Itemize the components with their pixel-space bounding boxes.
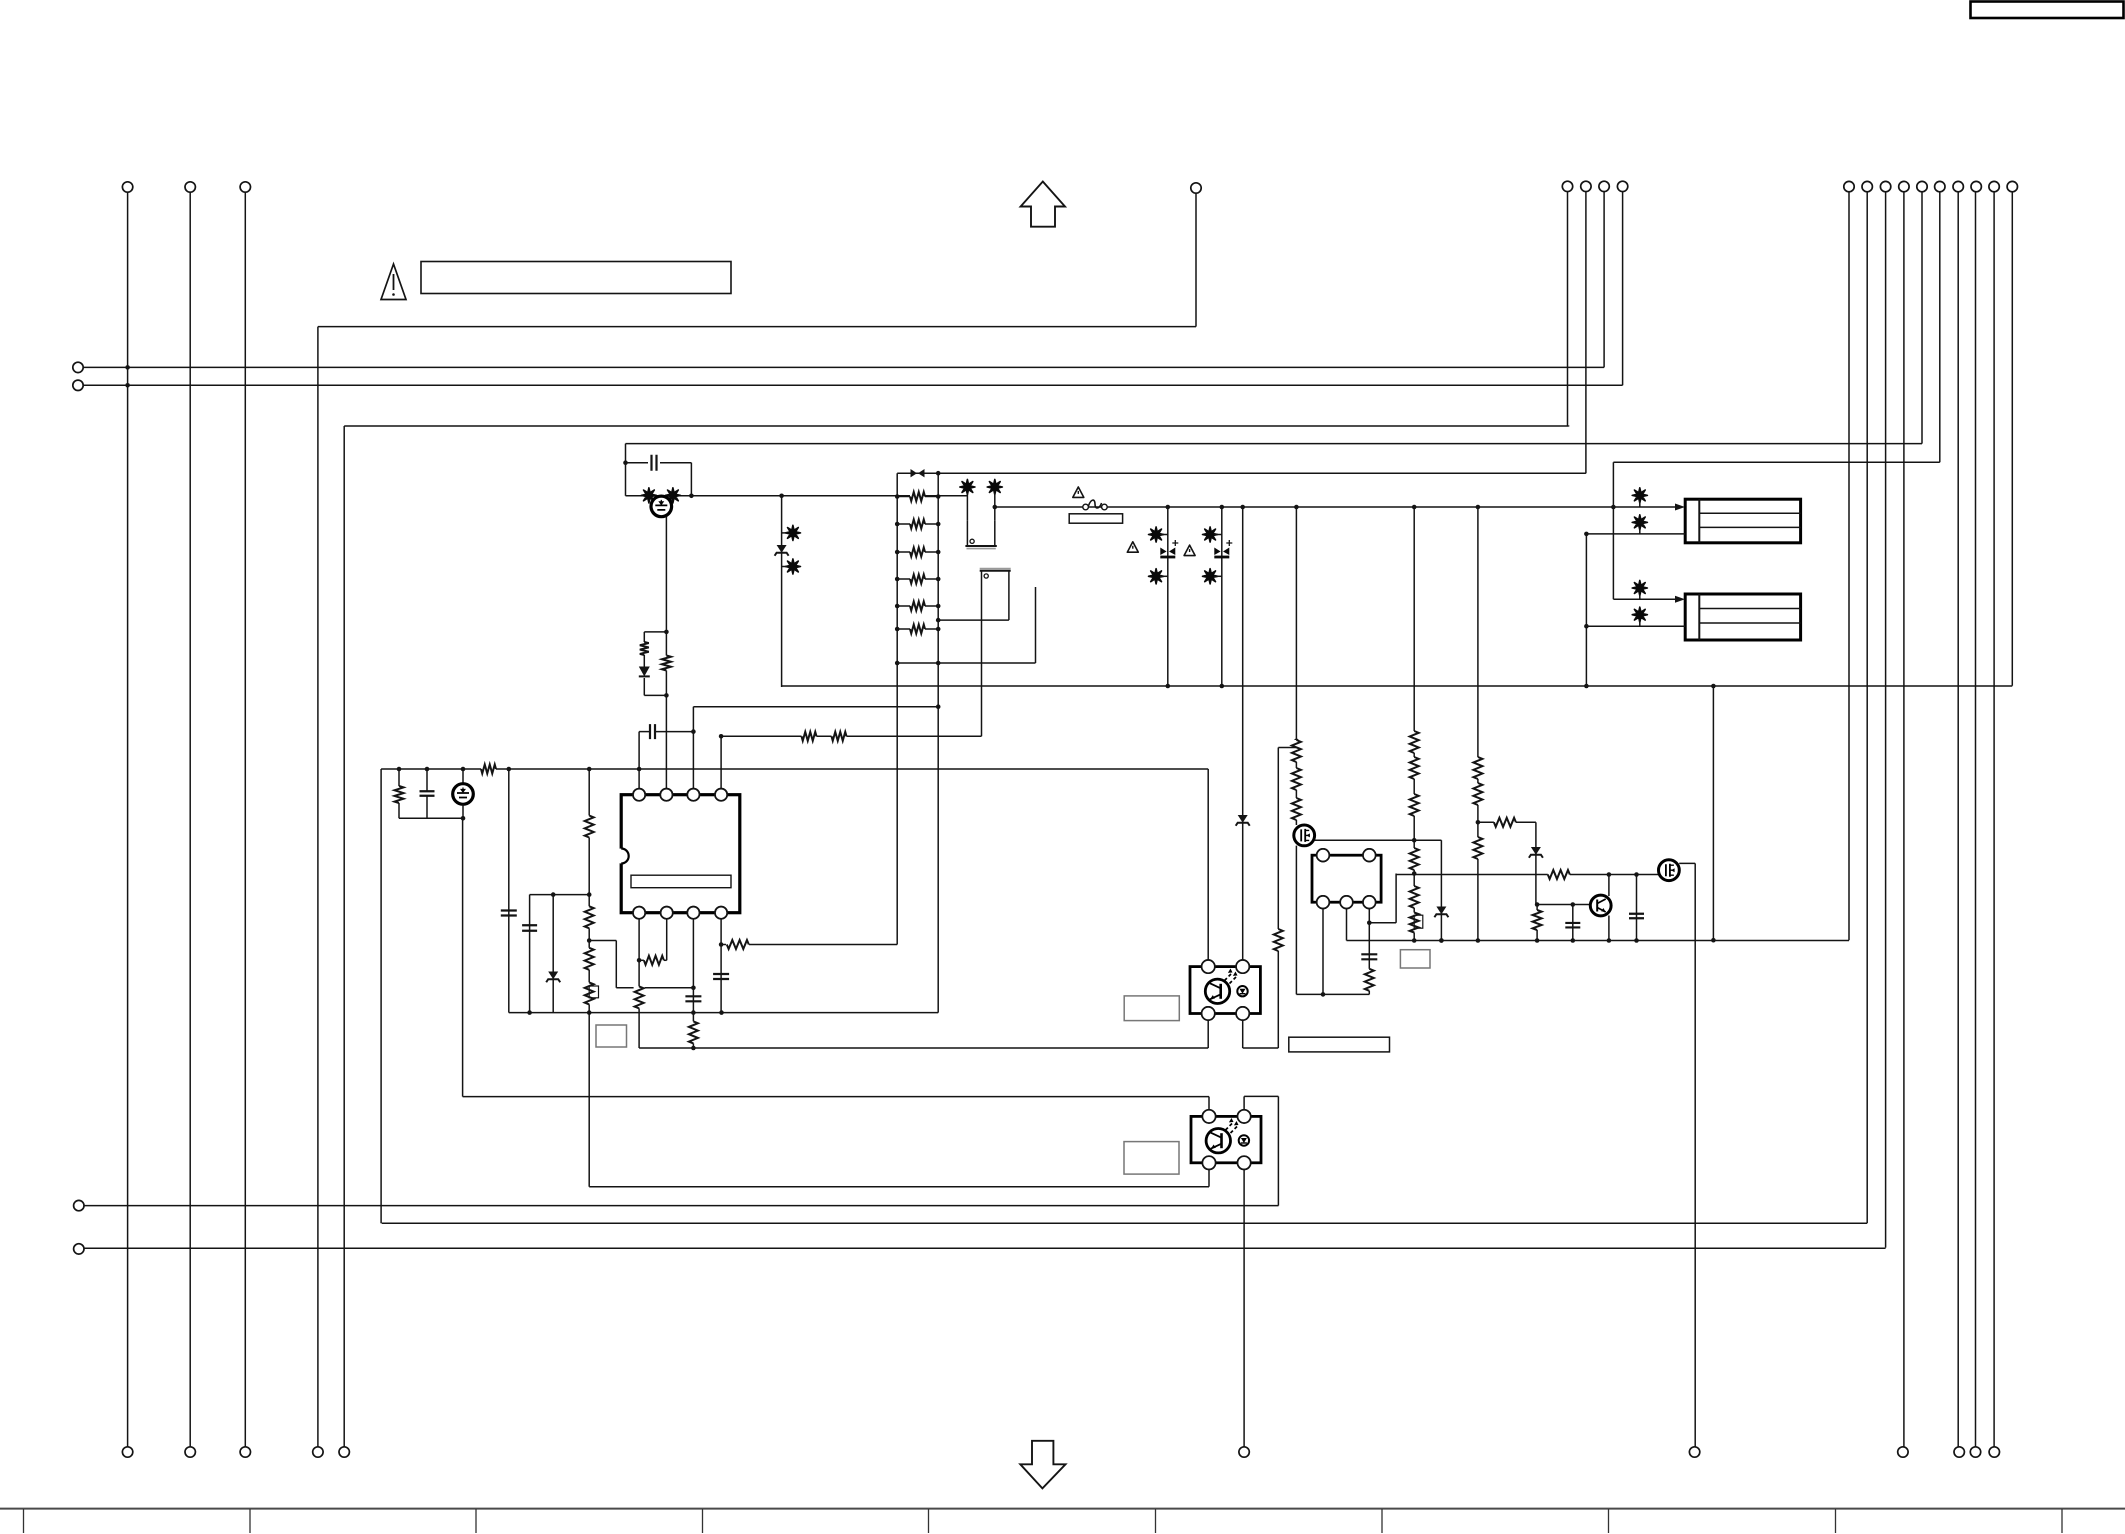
arrow into connector CN-B2 bbox=[1675, 596, 1685, 603]
wire FET1 source bbox=[1295, 846, 1297, 995]
wire vertical x=127.6 bbox=[125, 192, 130, 1447]
wire PC2 cathode bbox=[1243, 1163, 1245, 1447]
wire x=1441.4 + zener bbox=[1439, 840, 1444, 943]
transformer core stub bbox=[1035, 587, 1037, 663]
title box top-right bbox=[1971, 2, 2124, 19]
resistor R-e bbox=[584, 948, 595, 970]
connector block CN-B1 bbox=[1685, 499, 1800, 543]
sheet bottom border line bbox=[0, 1508, 2125, 1510]
wire y=818.3 bbox=[399, 816, 465, 821]
connector pin group3-4 bbox=[1899, 181, 1909, 191]
wire x=508.8 with cap bbox=[508, 769, 510, 1013]
connector pin bottom-left-5 bbox=[339, 1447, 349, 1457]
connector pin bottom-right-4 bbox=[1954, 1447, 1964, 1457]
zener ZD-b x=553.2 bbox=[546, 895, 560, 1013]
wire AC-N y=385.3 bbox=[83, 384, 1622, 386]
wire y=1096.6 bbox=[463, 1096, 1209, 1098]
capacitor C-e1 (polarized) bbox=[1160, 540, 1178, 557]
resistor R-k bbox=[688, 1021, 699, 1043]
star FR3 bbox=[782, 525, 801, 540]
IC U1 top pin 2 bbox=[660, 789, 672, 801]
wire vertical x=245.3 bbox=[244, 192, 246, 1447]
wire PC1 emitter bbox=[1207, 1014, 1209, 1049]
IC U1 bottom pin 6 bbox=[687, 907, 699, 919]
optocoupler PC2 LED bbox=[1239, 1135, 1249, 1145]
resistor R-h bbox=[832, 731, 847, 742]
resistor R-f boxed bbox=[584, 982, 599, 1004]
wire y=443.6 bbox=[626, 443, 1923, 445]
wire vertical x=1867.3 bbox=[1866, 192, 1868, 1223]
wire U1 pin7 path bbox=[589, 941, 696, 991]
zener ZD-c bbox=[1236, 815, 1250, 826]
wire vertical x=1903.9 bbox=[1903, 192, 1905, 1447]
chain x=1477.9 bbox=[1476, 505, 1481, 941]
IC U1 top pin 3 bbox=[687, 789, 699, 801]
wire AC-L y=367.4 bbox=[83, 366, 1604, 368]
wire x=381.1 left loop bbox=[380, 769, 382, 1223]
wire pin2 to IC bbox=[665, 695, 667, 794]
connector pin bottom-right-2 bbox=[1689, 1447, 1699, 1457]
star FR12 bbox=[1632, 515, 1647, 534]
resistor R-ladder-3 bbox=[897, 547, 938, 558]
wire y=473.2 (ladder top) bbox=[897, 471, 1586, 476]
connector pin group3-5 bbox=[1917, 181, 1927, 191]
connector pin group3-1 bbox=[1844, 181, 1854, 191]
wire vertical x=1975.5 bbox=[1975, 192, 1977, 1447]
wire U1 pin3 top bbox=[692, 707, 694, 795]
wire x=1713.4 bbox=[1711, 684, 1716, 943]
bus y=1012.6 bbox=[509, 1012, 938, 1014]
connector pin group3-9 bbox=[1989, 181, 1999, 191]
wire y=994.4 bbox=[1296, 993, 1369, 995]
wire y=462.2 bbox=[1613, 461, 1939, 463]
label box LB-D bbox=[1124, 1142, 1179, 1175]
resistor R-a (pin2 chain) bbox=[661, 632, 672, 696]
wire U1 pin5 bottom bbox=[719, 913, 724, 1015]
resistor R-ladder-6 bbox=[897, 624, 938, 635]
wire Q2 emitter bbox=[1608, 916, 1610, 941]
resistor R-o bbox=[1273, 929, 1284, 951]
capacitor C-g bbox=[685, 996, 701, 1001]
connector pin group3-2 bbox=[1862, 181, 1872, 191]
star FR14 bbox=[1632, 607, 1647, 626]
optocoupler PC1 LED bbox=[1237, 986, 1247, 996]
connector pin P1-3 (top left) bbox=[240, 182, 250, 192]
connector pin bottom-right-3 bbox=[1898, 1447, 1908, 1457]
cap bank riser x=1221.8 bbox=[1220, 505, 1225, 689]
optocoupler PC2 body bbox=[1191, 1116, 1261, 1162]
branch R+D parallel bbox=[639, 632, 667, 696]
label box LB-C bbox=[1400, 950, 1430, 968]
wire vertical x=1994.3 bbox=[1993, 192, 1995, 1447]
resistor R-j (pins 8-7) bbox=[639, 955, 667, 966]
wire U1 pin7 bottom bbox=[666, 913, 668, 961]
wire x=1586.4 riser bbox=[1584, 532, 1589, 689]
resistor R-u boxed bbox=[1409, 913, 1423, 933]
wire PC2 emitter bbox=[1208, 1163, 1210, 1187]
star FR10 bbox=[1203, 569, 1222, 584]
resistor R-d0 bbox=[584, 816, 595, 838]
transistor Q2 (NPN) bbox=[1590, 895, 1611, 916]
connector pin bottom-left-4 bbox=[313, 1447, 323, 1457]
ladder right vertical x=938.2 bbox=[936, 473, 941, 1012]
resistor R-q0 bbox=[1409, 731, 1420, 753]
star FR9 bbox=[1203, 527, 1222, 542]
resistor R-b on y=769 bbox=[481, 764, 496, 775]
wire y=894.6 bbox=[530, 892, 592, 897]
connector pin left-4 bbox=[74, 1244, 84, 1254]
IC U2 pins bbox=[1317, 849, 1376, 909]
warning note box bbox=[421, 262, 731, 294]
wire riser-A x=1278.3 bbox=[1278, 748, 1296, 1049]
resistor R-g bbox=[802, 731, 817, 742]
wire PC2 collector bbox=[1208, 1097, 1210, 1117]
optocoupler PC1 body bbox=[1190, 967, 1260, 1014]
wire into CN-B2 top bbox=[1613, 598, 1676, 600]
fuse warning triangle bbox=[1073, 487, 1084, 497]
capacitor C-b x=427 bbox=[420, 769, 435, 818]
wire vertical x=1622.6 bbox=[1622, 192, 1624, 386]
warning triangle near C-e2 bbox=[1184, 545, 1195, 555]
capacitor C-d x=529.6 bbox=[527, 895, 532, 1015]
resistor R-p bbox=[1364, 969, 1375, 991]
wire y=1186.7 bbox=[589, 1186, 1209, 1188]
bus y=686 bbox=[782, 685, 2013, 687]
wire Q3 drain bbox=[1679, 863, 1695, 1446]
resistor R-s bbox=[1409, 848, 1420, 870]
wire vertical x=1567.5 bbox=[1567, 192, 1569, 426]
IC U1 top pin 1 bbox=[633, 789, 645, 801]
label box LB-wide bbox=[1289, 1037, 1390, 1052]
resistor R-x bbox=[1494, 817, 1516, 828]
chain x=1414.2 bbox=[1412, 505, 1417, 941]
connector block CN-B2 bbox=[1685, 594, 1800, 640]
star FR6 bbox=[987, 479, 1002, 520]
wire PC2 anode path bbox=[1244, 1096, 1278, 1116]
wire snubber left vertical x=625.5 bbox=[623, 444, 628, 496]
wire vertical x=1921.1 bbox=[1921, 192, 1923, 444]
optocoupler PC2 pins bbox=[1202, 1110, 1250, 1170]
wire Q2 base bbox=[1535, 902, 1591, 907]
wire vertical x=1885.4 bbox=[1885, 192, 1887, 1248]
resistor R-r bbox=[1409, 794, 1420, 816]
connector pin left-1 bbox=[73, 362, 83, 372]
wire PC1 cathode bbox=[1243, 1014, 1279, 1049]
protective earth symbol E1 bbox=[651, 496, 672, 517]
resistor R-d bbox=[584, 906, 595, 928]
capacitor C-c bbox=[501, 911, 517, 916]
capacitor C-i bbox=[1361, 954, 1377, 959]
connector pin bottom-right-6 bbox=[1989, 1447, 1999, 1457]
capacitor C-f (pins1-3) bbox=[639, 724, 696, 739]
arrow into connector CN-B1 bbox=[1675, 504, 1685, 511]
connector pin group3-3 bbox=[1880, 181, 1890, 191]
optocoupler PC2 light arrows bbox=[1226, 1118, 1239, 1133]
resistor R-ladder-4 bbox=[897, 574, 938, 585]
connector pin P1-2 (top left) bbox=[185, 182, 195, 192]
IC U1 body bbox=[614, 795, 740, 913]
label box LB-B bbox=[1124, 996, 1179, 1021]
wire y=822.3 bbox=[1478, 821, 1536, 823]
zener ZD-a bbox=[775, 545, 789, 556]
wire U1 pin3 y=706.7 bbox=[693, 706, 938, 708]
capacitor C-j bbox=[1565, 905, 1580, 941]
wire B3 tap bbox=[1369, 874, 1396, 923]
star FR11 bbox=[1632, 488, 1647, 507]
wire y=426 bbox=[344, 425, 1569, 428]
capacitor C-k bbox=[1629, 875, 1644, 941]
resistor R-v0 bbox=[1472, 757, 1483, 779]
wire vertical x=190.2 bbox=[189, 192, 191, 1447]
capacitor C-e2 (polarized) bbox=[1214, 540, 1232, 557]
wire PC1 anode riser bbox=[1240, 505, 1245, 967]
wire y=326.6 bbox=[318, 326, 1196, 328]
IC U2 body bbox=[1312, 855, 1381, 902]
wire vertical x=317.9 bbox=[317, 327, 319, 1447]
resistor R-q bbox=[1409, 757, 1420, 779]
wire x=1535.9 bbox=[1535, 822, 1537, 904]
capacitor C-d plates bbox=[522, 925, 537, 931]
optocoupler PC1 phototransistor bbox=[1205, 979, 1229, 1003]
optocoupler PC2 phototransistor bbox=[1206, 1129, 1230, 1153]
wire y=1048 (opto1 emitter) bbox=[639, 1047, 1208, 1049]
IC U1 label box bbox=[631, 875, 731, 888]
resistor R-m bbox=[1291, 768, 1302, 790]
wire x=589.2 sense bbox=[587, 769, 592, 1187]
pin overlays (redraw on top) bbox=[633, 789, 1376, 1170]
resistor R-w bbox=[1472, 837, 1483, 859]
transistor Q3 (FET) bbox=[1659, 860, 1680, 881]
zener ZD-d bbox=[1434, 907, 1448, 918]
wire y=736.3 (Vcc) bbox=[721, 735, 981, 737]
wire vertical x=1585.9 bbox=[1585, 192, 1587, 474]
optocoupler PC1 light arrows bbox=[1225, 969, 1238, 984]
wire y=507 (secondary rail) bbox=[995, 506, 1676, 508]
resistor R-n bbox=[1291, 798, 1302, 820]
fuse F1 bbox=[1083, 500, 1107, 510]
connector pin bottom-left-3 bbox=[240, 1447, 250, 1457]
connector pin bottom-left-2 bbox=[185, 1447, 195, 1457]
resistor R-c x=399 bbox=[394, 769, 405, 818]
connector pin P1-1 (top left) bbox=[122, 182, 132, 192]
winding W1 (primary shield) bbox=[965, 521, 996, 549]
wire vertical x=344.2 bbox=[343, 426, 345, 1447]
wire CN-B1 bottom bbox=[1586, 533, 1685, 535]
resistor R-t bbox=[1409, 886, 1420, 908]
wire FET1 drain chain bbox=[1294, 505, 1299, 825]
capacitor C-h bbox=[713, 974, 729, 979]
wire snubber right vertical bbox=[689, 463, 694, 498]
wire vertical x=1849.9 bbox=[1848, 192, 1850, 940]
wire U1 pin6 bottom bbox=[691, 913, 696, 1051]
wire y=1205.6 bbox=[84, 1205, 1279, 1207]
connector pin bottom-right-1 bbox=[1239, 1447, 1249, 1457]
wire vertical x=1939.7 bbox=[1939, 192, 1941, 462]
wire y=1223.3 bbox=[382, 1222, 1868, 1224]
wire FET1 gate y=840.2 bbox=[1315, 838, 1442, 843]
wire y=874.5 bbox=[1396, 872, 1658, 877]
connector pin group2-2 bbox=[1581, 181, 1591, 191]
wire U2 pin B2 to bus bbox=[1346, 902, 1348, 940]
IC U1 bottom pin 5 bbox=[715, 907, 727, 919]
cap bank riser x=1167.8 bbox=[1166, 505, 1171, 689]
ladder left vertical x=897.2 bbox=[895, 473, 900, 944]
optocoupler PC1 pins bbox=[1202, 960, 1250, 1020]
connector pin group3-10 bbox=[2007, 181, 2017, 191]
star FR13 bbox=[1632, 580, 1647, 599]
warning triangle near C-e1 bbox=[1127, 542, 1138, 552]
wire zener branch x=781.6 bbox=[781, 496, 783, 687]
bus y=940.5 bbox=[1347, 938, 1850, 943]
warning triangle symbol bbox=[381, 264, 406, 300]
IC U1 top pin 4 bbox=[715, 789, 727, 801]
connector pin group3-8 bbox=[1971, 181, 1981, 191]
wire U2 pin B1 bbox=[1321, 902, 1326, 997]
star FR8 bbox=[1149, 569, 1168, 584]
resistor R-y bbox=[1532, 905, 1543, 941]
diode D-a bbox=[639, 667, 650, 677]
wire U1 pin4 top bbox=[719, 734, 724, 795]
wire U1 pin8 bottom bbox=[637, 913, 642, 1048]
wire vertical to top-middle pin bbox=[1195, 193, 1197, 326]
connector pin left-2 bbox=[73, 380, 83, 390]
connector pin (top middle) bbox=[1191, 183, 1201, 193]
star FR4 bbox=[782, 559, 801, 574]
protective earth symbol E2 bbox=[453, 769, 474, 818]
wire pin2 chain top bbox=[664, 517, 669, 698]
resistor R-ladder-2 bbox=[897, 519, 938, 530]
resistor R-ladder-1 bbox=[897, 491, 938, 502]
transistor Q1 (FET) bbox=[1294, 825, 1315, 846]
connector pin group3-6 bbox=[1935, 181, 1945, 191]
fusible-resistor star FR1 bbox=[641, 488, 656, 503]
connector pin group2-4 bbox=[1617, 181, 1627, 191]
resistor R-z bbox=[1548, 869, 1570, 880]
wire x=462.3 long bbox=[462, 818, 464, 1096]
capacitor C-snubber bbox=[626, 455, 692, 471]
flow arrow up (to previous sheet) bbox=[1021, 182, 1065, 227]
flow arrow down (to next sheet) bbox=[1020, 1441, 1065, 1489]
wire vertical x=2011.7 bbox=[2011, 192, 2013, 686]
connector pin group3-7 bbox=[1953, 181, 1963, 191]
connector pin bottom-right-5 bbox=[1970, 1447, 1980, 1457]
connector pin group2-3 bbox=[1599, 181, 1609, 191]
sheet zone tick marks bbox=[24, 1509, 2063, 1533]
wire y=1248.5 bbox=[84, 1247, 1886, 1249]
ladder bottom rung bbox=[897, 662, 1035, 664]
connector pin bottom-left-1 bbox=[122, 1447, 132, 1457]
wire y=769 bbox=[381, 767, 1208, 772]
fusible-resistor star FR2 bbox=[665, 488, 680, 503]
wire Q2 collector bbox=[1608, 875, 1610, 897]
wire vertical x=1959.2 bbox=[1957, 192, 1959, 1447]
wire y=620.1 bbox=[936, 618, 1009, 623]
connector pin left-3 bbox=[74, 1200, 84, 1210]
wire U2 pin B3 chain bbox=[1367, 902, 1372, 994]
connector pin group2-1 bbox=[1562, 181, 1572, 191]
wire PC1 collector bbox=[1207, 769, 1209, 967]
wire vertical x=1604.1 bbox=[1603, 192, 1605, 368]
IC U1 bottom pin 8 bbox=[633, 907, 645, 919]
IC U1 bottom pin 7 bbox=[661, 907, 673, 919]
star FR5 bbox=[960, 479, 975, 520]
wire y=944.5 + R bbox=[721, 939, 897, 950]
winding W2 (shield) bbox=[980, 569, 1011, 737]
resistor R-ladder-5 bbox=[897, 601, 938, 612]
label box LB-A bbox=[596, 1025, 627, 1047]
resistor R-v bbox=[1472, 783, 1483, 805]
wire riser-B bbox=[1277, 1096, 1279, 1205]
resistor R-l bbox=[1291, 740, 1302, 762]
star FR7 bbox=[1149, 527, 1168, 542]
diode D-ladder (bowtie) bbox=[911, 469, 925, 477]
wire U1 pin1 top bbox=[638, 732, 640, 795]
zener ZD-e bbox=[1529, 847, 1543, 858]
wire x=1613.4 riser bbox=[1611, 462, 1616, 599]
fuse body box bbox=[1069, 514, 1122, 523]
resistor R-i bbox=[634, 986, 645, 1008]
wire primary y=495.8 bbox=[626, 494, 968, 499]
wire CN-B2 bottom bbox=[1586, 625, 1685, 627]
